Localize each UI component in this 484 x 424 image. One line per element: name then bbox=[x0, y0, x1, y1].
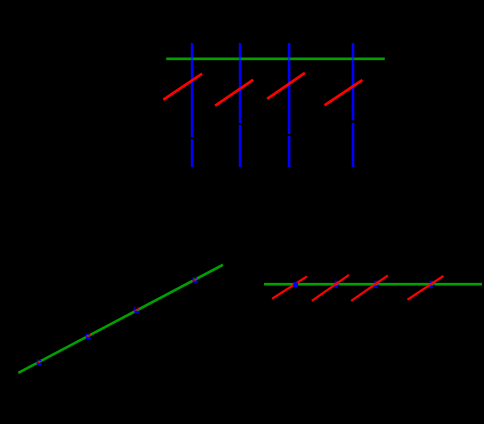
blue vertical line B3 lower segment bbox=[288, 136, 291, 167]
red diagonal r3 bottom bbox=[351, 276, 388, 301]
red mini tick at marker M2 bbox=[86, 334, 91, 337]
blue vertical line B4 lower segment bbox=[352, 123, 355, 167]
blue vertical line B2 upper segment bbox=[239, 43, 242, 123]
red diagonal r1 bottom bbox=[272, 276, 307, 298]
blend patch at green/blue crossing B4 bbox=[352, 58, 354, 60]
green horizontal line bottom-right bbox=[264, 283, 482, 286]
blue bowtie marker at crossing X3 bbox=[373, 281, 379, 288]
blue vertical line B1 lower segment bbox=[191, 139, 194, 167]
green horizontal line top bbox=[166, 57, 385, 60]
blend patch at green/blue crossing B3 bbox=[288, 58, 290, 60]
blue bowtie marker at crossing X2 bbox=[334, 281, 340, 288]
red diagonal r4 bottom bbox=[408, 276, 444, 300]
blue dot at crossing X1 bbox=[293, 282, 298, 287]
red diagonal R3 top bbox=[267, 73, 305, 99]
blend patch at green/blue crossing B1 bbox=[191, 58, 193, 60]
blue cluster of marker M4 bbox=[192, 277, 197, 283]
blue cluster of marker M3 bbox=[134, 307, 139, 313]
blend patch at green/blue crossing B2 bbox=[239, 58, 241, 60]
blue vertical line B1 upper segment bbox=[191, 43, 194, 137]
blue vertical line B3 upper segment bbox=[288, 43, 291, 134]
red diagonal r2 bottom bbox=[312, 275, 349, 301]
red mini tick at marker M3 bbox=[134, 308, 139, 311]
red diagonal R2 top bbox=[215, 80, 253, 106]
red mini tick at marker M1 bbox=[37, 360, 42, 363]
blue vertical line B2 lower segment bbox=[239, 125, 242, 167]
red diagonal R1 top bbox=[163, 74, 202, 100]
blue bowtie marker at crossing X4 bbox=[429, 281, 435, 288]
red mini tick at marker M4 bbox=[193, 278, 198, 281]
green diagonal line bottom-left bbox=[18, 265, 223, 373]
blue cluster of marker M1 bbox=[36, 359, 41, 365]
red diagonal R4 top bbox=[325, 80, 363, 105]
blue vertical line B4 upper segment bbox=[352, 43, 355, 120]
blue cluster of marker M2 bbox=[85, 333, 90, 339]
